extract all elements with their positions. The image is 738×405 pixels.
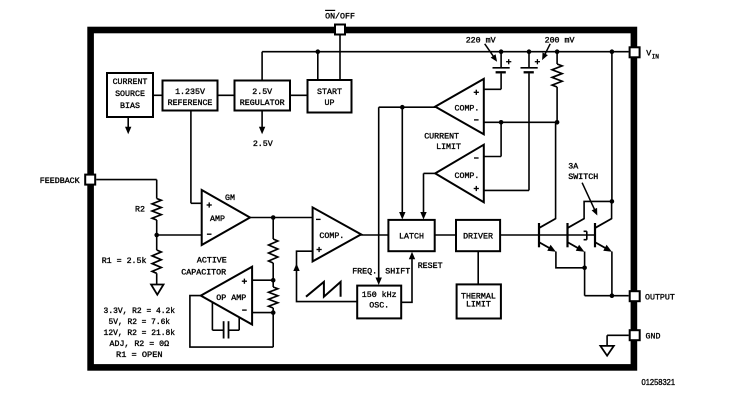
svg-text:SWITCH: SWITCH [568,173,598,182]
svg-text:SOURCE: SOURCE [115,90,145,99]
svg-text:GM: GM [225,194,235,203]
svg-text:CURRENT: CURRENT [424,132,459,141]
svg-text:ON/OFF: ON/OFF [325,12,355,22]
svg-text:V: V [646,50,651,59]
svg-text:LIMIT: LIMIT [436,143,461,152]
svg-text:COMP.: COMP. [455,105,480,114]
svg-text:FREQ.: FREQ. [352,267,377,276]
svg-text:01258321: 01258321 [642,378,676,387]
svg-text:DRIVER: DRIVER [463,232,493,241]
svg-text:3.3V, R2 = 4.2k: 3.3V, R2 = 4.2k [104,307,176,316]
svg-text:UP: UP [325,99,335,108]
svg-text:CURRENT: CURRENT [113,78,148,87]
svg-text:2.5V: 2.5V [253,140,273,149]
svg-text:220 mV: 220 mV [466,37,496,46]
svg-text:COMP.: COMP. [319,232,344,241]
svg-text:2.5V: 2.5V [252,88,272,97]
svg-text:REGULATOR: REGULATOR [240,99,285,108]
svg-text:ADJ, R2 = 0Ω: ADJ, R2 = 0Ω [110,340,170,349]
svg-text:CAPACITOR: CAPACITOR [181,268,226,277]
svg-text:OP AMP: OP AMP [216,294,246,303]
svg-text:LIMIT: LIMIT [466,301,491,310]
svg-text:R1 = OPEN: R1 = OPEN [116,351,163,360]
svg-text:R2: R2 [135,205,145,214]
svg-text:BIAS: BIAS [120,102,140,111]
svg-text:RESET: RESET [418,262,443,271]
svg-text:150 kHz: 150 kHz [362,290,397,300]
svg-text:FEEDBACK: FEEDBACK [40,177,80,186]
svg-text:LATCH: LATCH [399,232,424,241]
svg-text:AMP: AMP [210,215,225,224]
svg-text:COMP.: COMP. [455,172,480,181]
svg-text:5V, R2 = 7.6k: 5V, R2 = 7.6k [109,318,171,327]
svg-text:ACTIVE: ACTIVE [197,256,227,265]
svg-text:R1 = 2.5k: R1 = 2.5k [102,256,147,266]
svg-text:12V, R2 = 21.8k: 12V, R2 = 21.8k [104,329,176,338]
svg-text:GND: GND [646,332,661,341]
svg-text:OUTPUT: OUTPUT [645,293,675,302]
svg-text:3A: 3A [568,163,578,172]
svg-text:200 mV: 200 mV [545,37,575,46]
svg-text:START: START [317,88,342,97]
svg-text:OSC.: OSC. [369,302,389,311]
svg-text:1.235V: 1.235V [175,88,205,97]
svg-text:REFERENCE: REFERENCE [168,99,213,108]
svg-text:IN: IN [652,53,660,60]
svg-text:SHIFT: SHIFT [385,267,410,276]
